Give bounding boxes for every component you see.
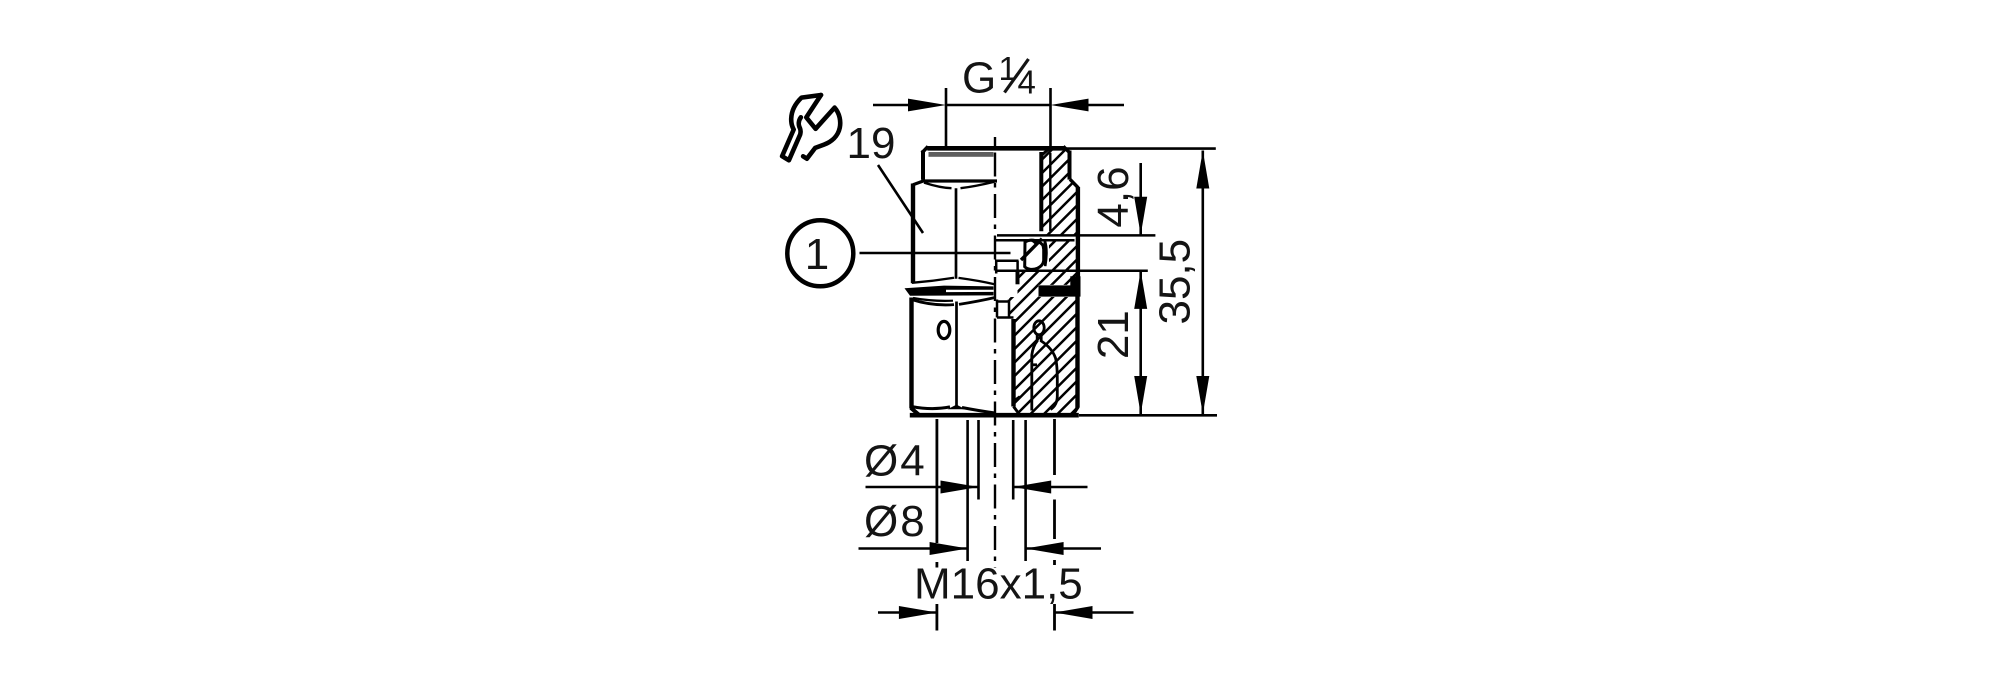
hex2 face divider <box>955 302 958 407</box>
leader 19 <box>878 165 923 233</box>
hex2 top chamfer arc left inner <box>913 298 953 301</box>
hex2 right edge <box>1075 296 1079 408</box>
hex2 bottom chamfer arc left <box>912 407 950 409</box>
dim 35,5 arrow top <box>1196 151 1209 189</box>
cross hole right profile <box>1041 335 1057 410</box>
dim d4 arrow right <box>1013 481 1051 494</box>
G1/4 arrow right <box>1051 99 1089 112</box>
dim M16 arrow right <box>1055 606 1093 619</box>
svg-text:G: G <box>962 54 996 103</box>
svg-text:M16x1,5: M16x1,5 <box>914 560 1083 609</box>
seal pocket bottom line <box>997 269 1148 272</box>
waist black band left <box>905 286 994 296</box>
top left corner chamfer <box>922 146 928 153</box>
cross hole left profile <box>1032 334 1037 411</box>
hatch lower wall <box>1009 297 1078 414</box>
hex1 left edge <box>911 184 915 284</box>
svg-text:35,5: 35,5 <box>1151 239 1200 325</box>
hex1 top chamfer arc right <box>961 182 995 189</box>
M16 thread relief stub <box>997 300 1014 318</box>
G thread minor line <box>1049 153 1051 231</box>
hex1 top edge <box>913 181 997 185</box>
body top face edge <box>927 146 1064 151</box>
hex1 top chamfer arc left <box>924 183 952 189</box>
seal part boundary curve <box>1031 240 1036 245</box>
right top extension line <box>1066 147 1216 150</box>
hex1 top right chamfer <box>1070 179 1078 188</box>
bore bottom chamfer <box>1014 407 1020 415</box>
G1/4 arrow left <box>908 99 946 112</box>
sealing ring lens <box>1044 241 1046 266</box>
dim 4,6 arrow <box>1134 197 1147 235</box>
dim 4,6 <box>1139 163 1142 235</box>
svg-text:Ø4: Ø4 <box>864 437 927 486</box>
right bottom extension line <box>1079 414 1217 417</box>
hex2 bottom chamfer arc right <box>962 408 995 414</box>
thread relief gray band <box>929 152 994 157</box>
sealing ring section <box>1025 240 1044 269</box>
G thread entry chamfer <box>1041 147 1051 155</box>
hex2 top chamfer arc right <box>959 298 995 305</box>
hex2 bottom left chamfer <box>911 408 920 416</box>
wrench icon <box>782 95 840 160</box>
G1/4 dimension <box>946 88 1051 151</box>
body bottom face <box>910 413 1079 418</box>
dim d8 arrow left <box>930 542 968 555</box>
svg-text:1: 1 <box>805 230 829 279</box>
dim 35,5 arrow bottom <box>1196 376 1209 414</box>
hex1 bottom chamfer arc right <box>959 278 996 285</box>
hex2 left edge <box>909 298 913 409</box>
dim d4 arrow left <box>941 481 979 494</box>
dim 21 <box>1139 271 1142 414</box>
leader 1 <box>860 252 1011 255</box>
waist white slit left <box>946 290 994 292</box>
sealing ring hatch line <box>1021 239 1042 260</box>
top right corner chamfer <box>1063 146 1070 153</box>
svg-text:19: 19 <box>847 119 896 168</box>
dim 35,5 <box>1202 151 1205 415</box>
callout circle 1 <box>787 220 853 286</box>
svg-text:21: 21 <box>1089 310 1138 359</box>
bottom extension lines <box>979 420 1014 500</box>
hex2 bottom apex <box>948 405 966 410</box>
internal step line upper <box>997 234 1155 237</box>
dim M16 arrow left <box>899 606 937 619</box>
svg-text:4,6: 4,6 <box>1089 166 1138 227</box>
dim 21 arrow bottom <box>1134 376 1147 414</box>
hex1 face divider <box>955 188 958 278</box>
waist black band section <box>1039 276 1081 296</box>
weep hole oval <box>938 321 950 338</box>
neck left edge <box>921 151 925 180</box>
cross hole step tick <box>1032 363 1037 366</box>
hex1 bottom chamfer arc left <box>912 278 954 283</box>
hex2 bottom right chamfer <box>1073 407 1078 415</box>
svg-text:Ø8: Ø8 <box>864 497 927 546</box>
hex1 right edge <box>1076 187 1080 284</box>
hex2 top chamfer arc left <box>912 300 955 305</box>
dim 21 arrow top <box>1134 271 1147 309</box>
thread runout notch <box>1014 397 1020 402</box>
seal pocket depth line <box>995 259 1019 262</box>
cross hole circle <box>1034 321 1044 335</box>
bore wall mid (section) <box>1016 271 1020 284</box>
hatch seal pocket wall <box>1049 241 1078 271</box>
svg-text:4: 4 <box>1018 64 1036 101</box>
dim d8 arrow right <box>1026 542 1064 555</box>
seal pocket step edge <box>1016 261 1019 271</box>
seal pocket bore edge <box>995 260 998 274</box>
hatch middle wall <box>1018 271 1078 297</box>
seal pocket top line <box>996 239 1075 242</box>
center line <box>994 137 996 147</box>
bore wall lower (section) <box>1011 319 1015 407</box>
G thread inner wall (section) <box>1039 152 1043 231</box>
neck right edge <box>1068 151 1072 180</box>
hatch upper thread wall <box>1041 148 1078 235</box>
